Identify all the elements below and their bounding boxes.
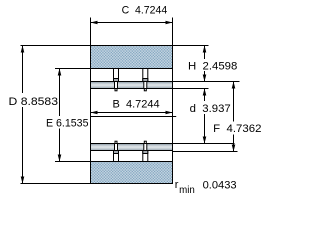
dimension C left arrow	[91, 21, 98, 25]
roller bottom 2	[143, 141, 148, 161]
inner ring bottom half strip	[91, 144, 173, 151]
roller bottom 1	[114, 141, 119, 161]
dimension B line	[91, 112, 173, 114]
svg-text:min: min	[179, 185, 195, 196]
outer raceway line top / E extension left	[55, 68, 173, 70]
outer raceway line bottom / E extension left	[55, 161, 173, 163]
dimension E vertical line	[59, 69, 61, 162]
inner ring top raceway line with F/H extension right	[91, 81, 240, 83]
dimension C line	[91, 22, 173, 24]
dimension F bottom arrow	[232, 145, 236, 152]
dimension E bottom arrow	[58, 155, 62, 162]
svg-text:B 4.7244: B 4.7244	[113, 98, 160, 110]
dimension D top arrow	[21, 46, 25, 53]
dimension E top arrow	[58, 69, 62, 76]
dimension H vertical line	[204, 46, 206, 82]
roller top 1	[114, 69, 119, 91]
F extension line right	[173, 151, 238, 153]
roller top 2	[143, 69, 148, 91]
dimension D bottom arrow	[21, 177, 25, 184]
svg-text:C 4.7244: C 4.7244	[122, 5, 168, 17]
centerline	[91, 116, 177, 118]
dimension C right arrow	[166, 21, 173, 25]
bearing right edge / C-B extension line	[172, 18, 174, 184]
bore line bottom with d extension right	[91, 143, 235, 145]
svg-text:D 8.8583: D 8.8583	[9, 96, 59, 108]
svg-text:0.0433: 0.0433	[203, 179, 237, 191]
dimension D vertical line	[22, 46, 24, 184]
dimension F top arrow	[232, 82, 236, 89]
bore line top with d extension right	[91, 88, 209, 90]
dimension F vertical line	[233, 82, 235, 152]
dimension H top arrow	[203, 46, 207, 53]
dimension d bottom arrow	[203, 137, 207, 144]
dimension H bottom arrow	[203, 75, 207, 82]
bearing bottom line with D extension left	[21, 183, 173, 185]
dimension B right arrow	[166, 111, 173, 115]
svg-text:F 4.7362: F 4.7362	[213, 123, 261, 135]
svg-text:E 6.1535: E 6.1535	[46, 117, 89, 129]
dimension d vertical line	[204, 89, 206, 144]
outer ring bottom half (section)	[91, 162, 173, 184]
svg-text:d 3.937: d 3.937	[190, 103, 231, 115]
dimension B left arrow	[91, 111, 98, 115]
bearing left edge / C-B extension line	[90, 18, 92, 184]
svg-text:H 2.4598: H 2.4598	[188, 60, 237, 72]
bearing top line with H extension right and D extension left	[21, 45, 209, 47]
outer ring top half (section)	[91, 46, 173, 69]
svg-text:r: r	[175, 179, 179, 191]
dimension d top arrow	[203, 89, 207, 96]
inner ring bottom raceway line inside bearing	[91, 150, 173, 152]
inner ring top half strip	[91, 82, 173, 89]
